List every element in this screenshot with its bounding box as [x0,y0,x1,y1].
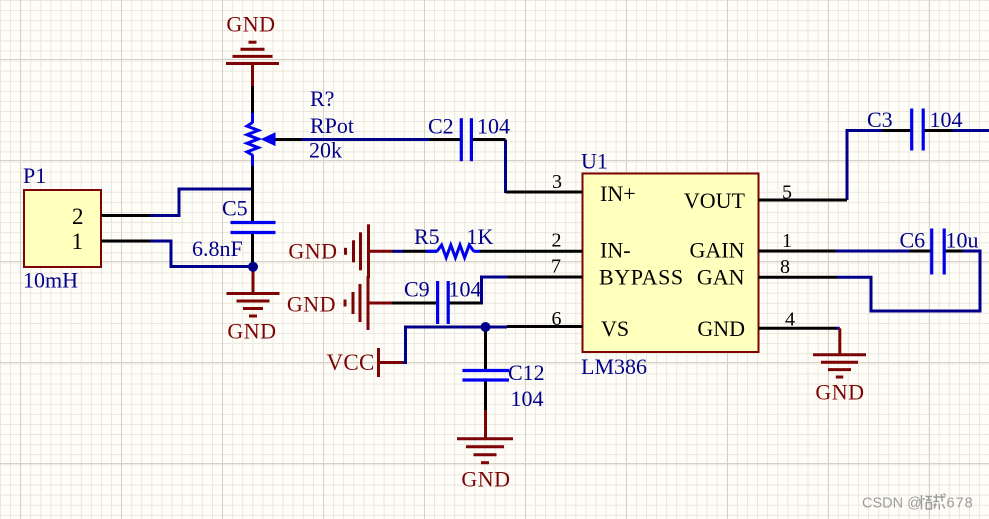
svg-text:GND: GND [697,316,745,341]
svg-text:C6: C6 [900,228,926,253]
svg-text:20k: 20k [309,138,342,163]
svg-text:C12: C12 [508,360,545,385]
svg-text:6.8nF: 6.8nF [192,236,243,261]
svg-text:104: 104 [930,107,963,132]
svg-text:104: 104 [477,114,510,139]
svg-text:GND: GND [288,239,337,264]
svg-text:678: 678 [947,496,974,512]
svg-text:GND: GND [287,292,336,317]
svg-text:R?: R? [310,86,334,111]
svg-text:2: 2 [72,204,84,229]
svg-text:5: 5 [782,182,792,204]
svg-text:RPot: RPot [310,113,354,138]
svg-text:10mH: 10mH [23,268,78,293]
svg-text:C9: C9 [404,277,430,302]
svg-text:IN-: IN- [600,238,631,263]
svg-text:R5: R5 [414,224,440,249]
svg-text:VS: VS [601,316,629,341]
svg-text:6: 6 [552,308,562,330]
svg-text:LM386: LM386 [581,354,647,379]
svg-text:C5: C5 [222,196,248,221]
svg-text:104: 104 [449,277,482,302]
svg-text:3: 3 [552,171,562,193]
svg-text:VOUT: VOUT [684,188,746,213]
svg-text:IN+: IN+ [600,181,636,206]
svg-text:GND: GND [815,380,864,405]
svg-text:1: 1 [782,230,792,252]
svg-text:GND: GND [227,319,276,344]
svg-text:8: 8 [780,256,790,278]
svg-text:1K: 1K [467,224,494,249]
svg-text:BYPASS: BYPASS [599,265,684,290]
svg-text:GND: GND [226,12,275,37]
svg-text:10u: 10u [946,228,979,253]
svg-text:104: 104 [511,386,544,411]
svg-text:CSDN @: CSDN @ [862,496,922,512]
svg-text:C3: C3 [867,107,893,132]
svg-text:GAN: GAN [697,265,745,290]
svg-text:U1: U1 [581,149,608,174]
svg-text:C2: C2 [428,114,454,139]
svg-text:7: 7 [551,256,561,278]
svg-text:1: 1 [72,229,84,254]
svg-text:P1: P1 [23,163,46,188]
svg-text:GAIN: GAIN [690,238,745,263]
svg-text:GND: GND [461,467,510,492]
svg-text:VCC: VCC [327,350,375,375]
svg-text:2: 2 [552,230,562,252]
svg-text:4: 4 [785,309,795,331]
